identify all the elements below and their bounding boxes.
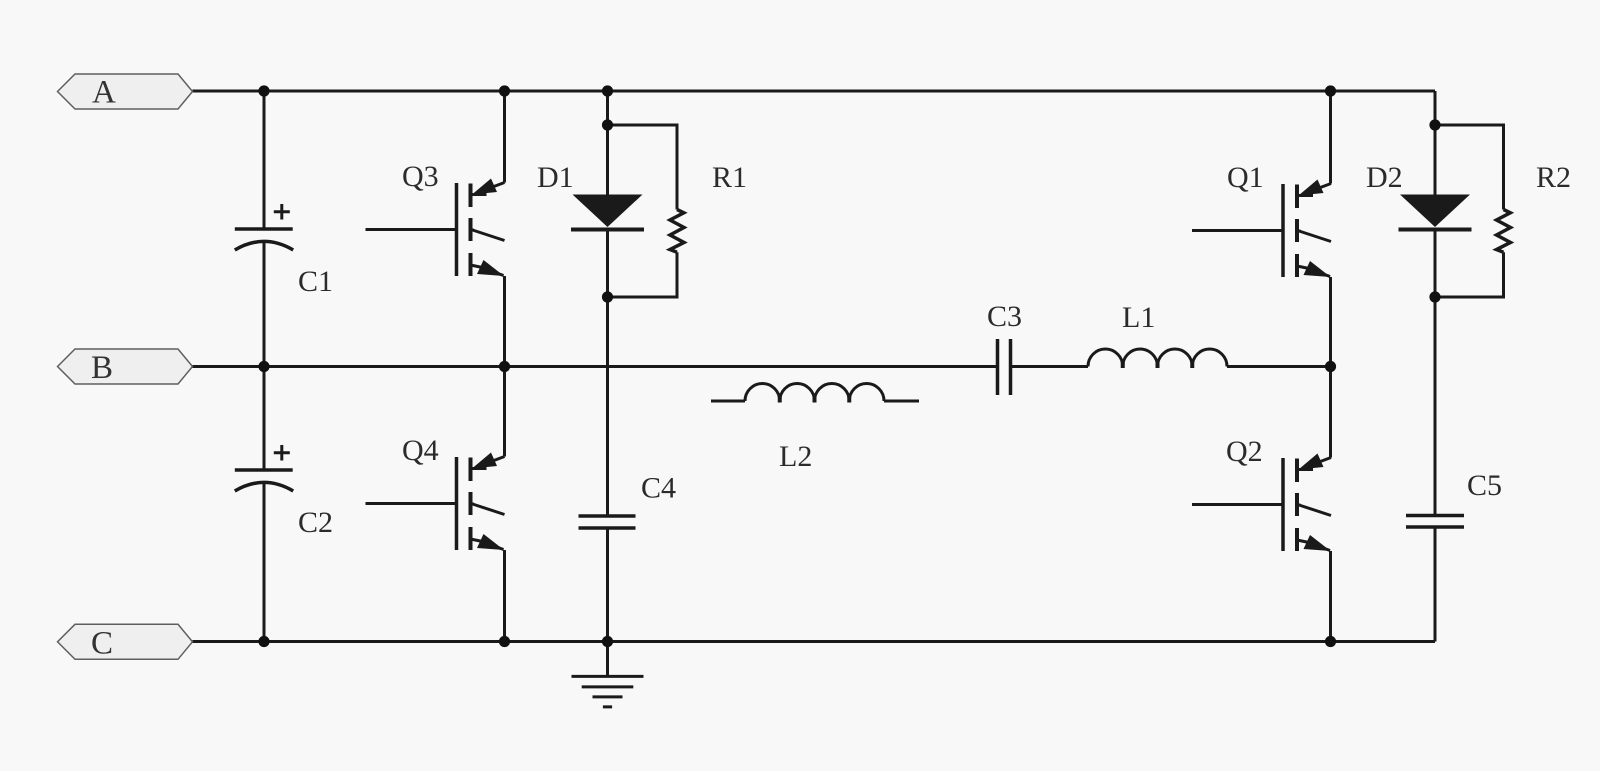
svg-text:C3: C3 (987, 300, 1022, 333)
svg-text:Q2: Q2 (1226, 435, 1263, 468)
svg-text:C2: C2 (298, 506, 333, 539)
svg-text:L2: L2 (779, 440, 812, 473)
svg-text:B: B (91, 350, 113, 386)
svg-text:C5: C5 (1467, 469, 1502, 502)
svg-text:Q3: Q3 (402, 160, 439, 193)
svg-text:D1: D1 (537, 161, 574, 194)
svg-text:Q1: Q1 (1227, 161, 1264, 194)
svg-text:C4: C4 (641, 472, 676, 505)
svg-text:D2: D2 (1366, 161, 1403, 194)
svg-text:L1: L1 (1122, 301, 1155, 334)
svg-text:A: A (92, 75, 116, 111)
svg-text:R2: R2 (1536, 161, 1571, 194)
svg-text:R1: R1 (712, 161, 747, 194)
svg-text:C1: C1 (298, 265, 333, 298)
svg-text:C: C (91, 626, 113, 662)
svg-text:Q4: Q4 (402, 434, 439, 467)
